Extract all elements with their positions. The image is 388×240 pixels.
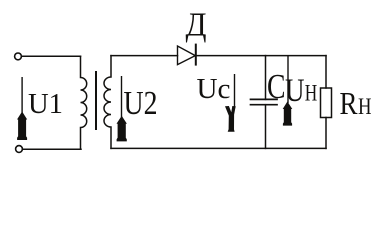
voltage arrow U1 line: [21, 77, 23, 113]
capacitor C upper plate: [251, 98, 278, 100]
voltage arrow Un head: [283, 102, 293, 126]
voltage arrow U2 head: [117, 116, 127, 142]
terminal: bottom input: [16, 146, 23, 153]
transformer T primary winding: [81, 56, 87, 149]
resistor Rn body: [321, 88, 332, 118]
svg-text:H: H: [305, 81, 318, 106]
svg-text:U2: U2: [124, 85, 158, 122]
voltage arrow U2 line: [121, 76, 123, 117]
voltage arrow Uc head: [225, 106, 236, 132]
svg-text:Д: Д: [186, 7, 207, 44]
wire secondary top to diode anode: [111, 55, 178, 57]
wire bottom rail (secondary to resistor): [111, 147, 326, 149]
voltage arrow U1 head: [17, 112, 27, 141]
svg-text:R: R: [340, 85, 359, 121]
capacitor C branch wire upper: [265, 56, 267, 100]
transformer T secondary winding: [104, 56, 111, 149]
capacitor C lower plate: [251, 104, 278, 106]
voltage arrow Un line: [287, 56, 289, 103]
transformer core: [95, 72, 97, 129]
voltage arrow Uc line: [234, 74, 236, 108]
svg-text:U: U: [285, 73, 305, 109]
svg-text:Uc: Uc: [197, 73, 231, 105]
diode D triangle: [178, 46, 196, 65]
wire diode cathode to top-right corner: [197, 55, 327, 57]
diode D cathode bar: [195, 45, 197, 65]
svg-text:H: H: [358, 94, 372, 120]
wire top-left from terminal to primary: [21, 55, 80, 57]
capacitor C branch wire lower: [265, 105, 267, 149]
svg-text:U1: U1: [28, 88, 63, 120]
wire bottom-left from terminal to primary: [22, 148, 81, 150]
terminal: top input: [15, 53, 22, 60]
wire right vertical to resistor top: [325, 56, 327, 88]
wire resistor bottom to bottom rail: [325, 118, 327, 149]
svg-text:C: C: [267, 67, 286, 106]
